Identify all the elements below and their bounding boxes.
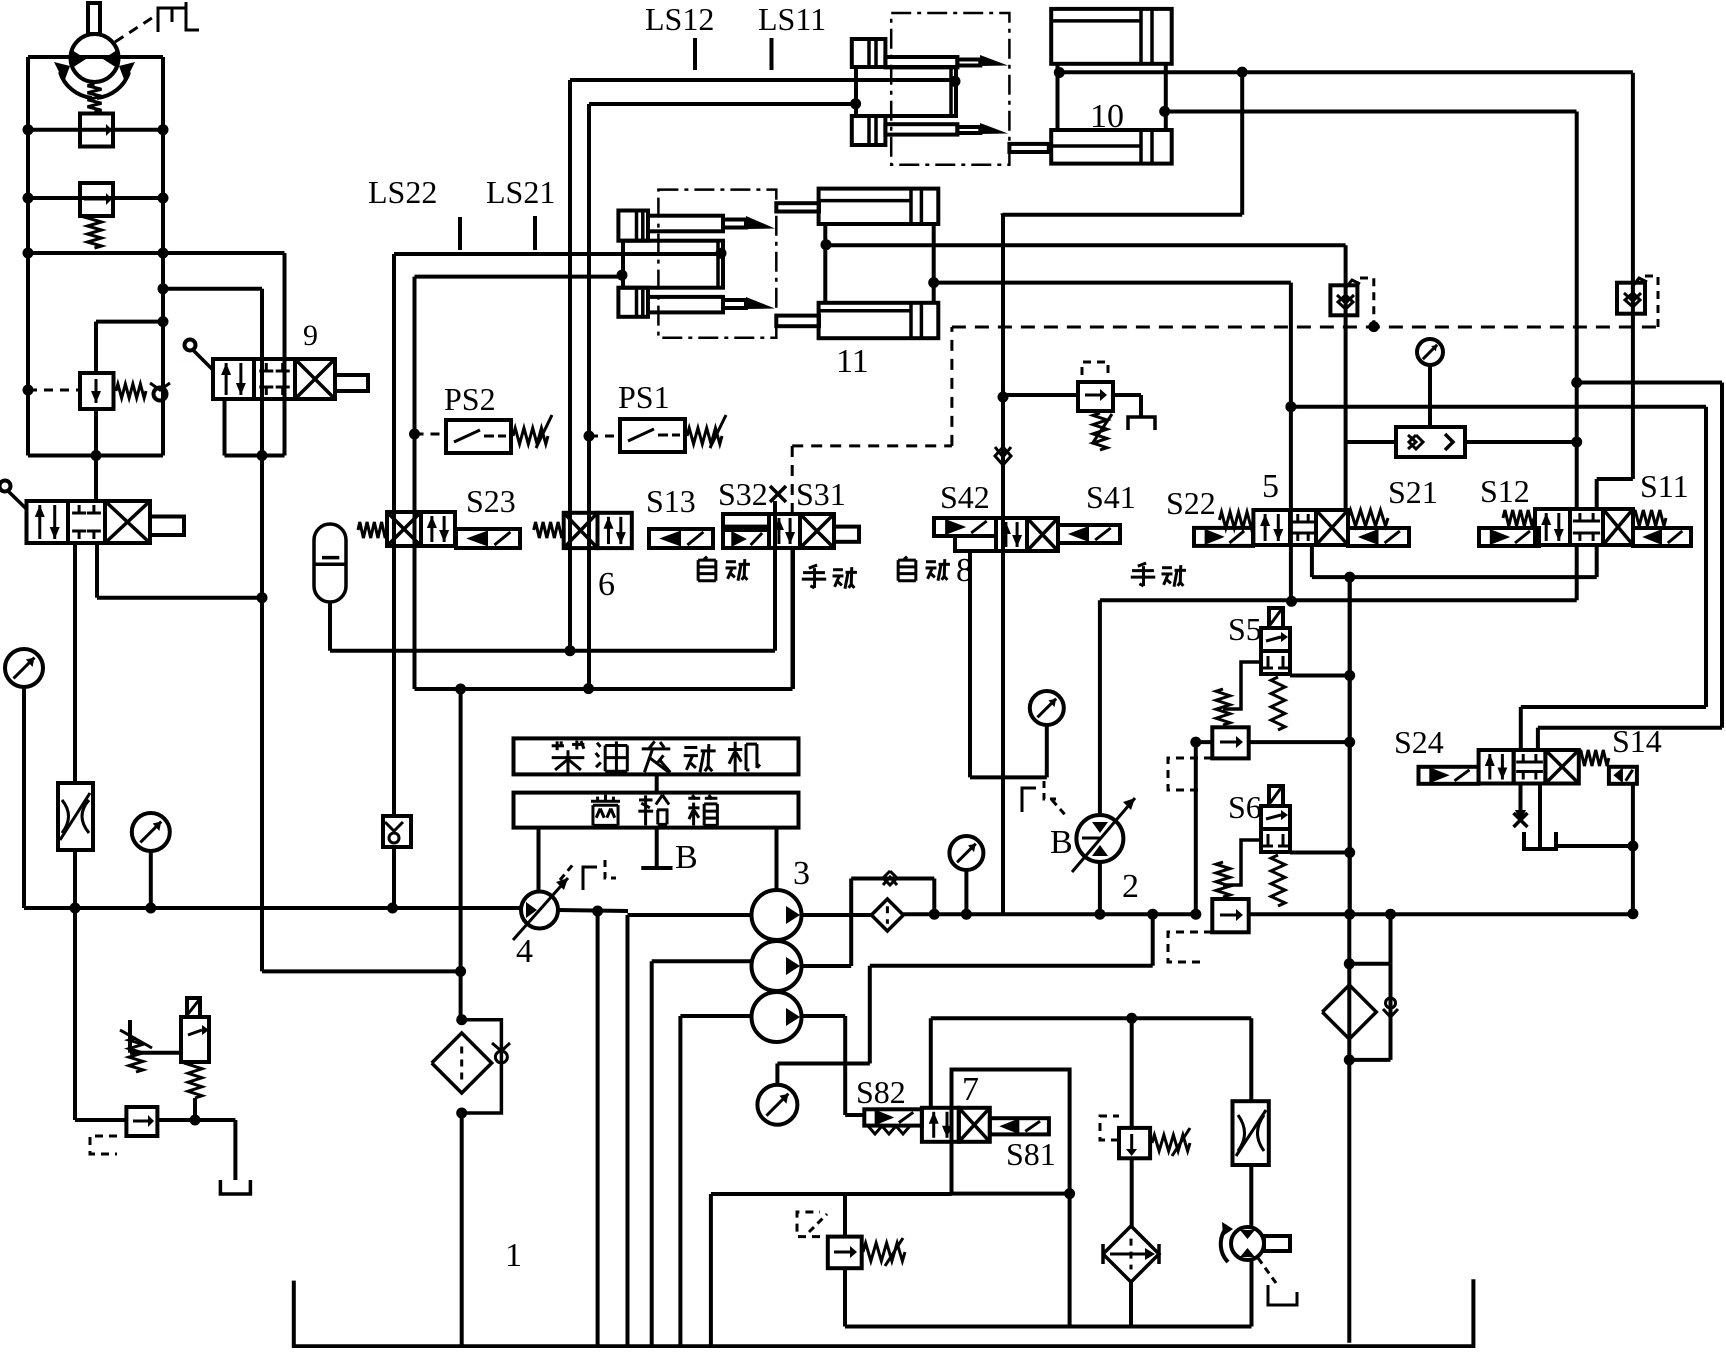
main filter diamond <box>871 899 903 931</box>
check valve box B <box>80 183 113 216</box>
svg-text:S41: S41 <box>1086 479 1136 515</box>
cylinder 11 top spear rod <box>648 216 723 232</box>
branch to S82 gauge line <box>1151 914 1155 966</box>
wire y=908 tank return <box>24 906 522 910</box>
S6 left port <box>1223 840 1261 885</box>
lever valve left body <box>27 501 69 543</box>
S6 relief dashed bracket <box>1168 932 1212 962</box>
svg-text:2: 2 <box>1122 868 1139 905</box>
main line y=914 <box>903 912 1196 916</box>
cylinder 10 body bottom cap <box>1051 130 1172 164</box>
wire y=130 <box>28 128 163 132</box>
pilot valve left wire <box>130 1051 181 1055</box>
wire x=1242 down and left to x=1003 <box>1240 72 1244 215</box>
wire LS11 vertical x=589 <box>587 104 591 689</box>
svg-text:3: 3 <box>793 855 810 892</box>
wire y=455 left section <box>28 454 163 458</box>
throttle valve bottom right <box>1249 1018 1253 1101</box>
filter bypass right-bottom <box>1349 962 1390 966</box>
wire y=651 accumulator line <box>330 649 775 653</box>
cylinder 11 rod top link <box>776 203 819 211</box>
svg-text:B: B <box>1050 824 1073 861</box>
wire LS12 vertical x=570 <box>568 80 572 651</box>
pump 3 circle B <box>752 941 802 991</box>
cylinder 11 port y=246 to valve5 <box>821 239 832 250</box>
svg-text:S31: S31 <box>796 476 846 512</box>
wire S11 bottom to y=577 <box>1595 545 1599 577</box>
check ball <box>154 388 167 401</box>
cylinder 10 port line y=111 <box>1159 106 1170 117</box>
cylinder 11 body side walls <box>823 224 827 303</box>
cylinder 10 port line y=72 <box>1054 67 1065 78</box>
wire y=382.5 to right rail <box>1577 381 1722 385</box>
wire x=75 throttle down to relief row <box>73 850 77 1120</box>
gauge below valve 8 <box>968 551 972 777</box>
wire S31 bottom x=793 <box>791 548 795 689</box>
valve top pipes <box>1519 707 1523 750</box>
S6 valve spring below <box>1271 855 1285 906</box>
relief valve top (pilot) near S42 <box>1003 393 1078 397</box>
dashed bracket relief <box>90 1136 117 1154</box>
cylinder 11 dash-dot frame <box>658 190 776 338</box>
gearbox stem left to pump4 <box>537 827 541 892</box>
cooler diamond <box>1103 1226 1159 1282</box>
gearbox stem mid to B ground <box>655 827 659 868</box>
label auto1 <box>704 557 707 560</box>
svg-text:PS2: PS2 <box>444 381 496 417</box>
spring diagonal above relief <box>129 1038 143 1072</box>
return filter left <box>456 1014 467 1025</box>
wire LS11 line y=104 <box>589 102 856 106</box>
wire S12 T bottom to y=600 <box>1575 545 1579 600</box>
throttle valve left <box>58 783 93 850</box>
svg-text:6: 6 <box>598 566 615 603</box>
valve 9 lever <box>185 340 196 351</box>
S14 solenoid drain <box>1631 784 1635 914</box>
dashed bracket above relief <box>1082 362 1108 375</box>
svg-text:S22: S22 <box>1166 485 1216 521</box>
relief bottom-center stem <box>843 1194 847 1237</box>
relief assembly bottom-left: pilot valve <box>181 1017 209 1062</box>
svg-text:1: 1 <box>505 1237 522 1274</box>
svg-text:7: 7 <box>962 1071 979 1108</box>
cylinder 10 spear middle block <box>856 67 956 116</box>
wire LS21 line y=277 <box>415 275 623 279</box>
valve7 drain loop <box>1068 1194 1072 1327</box>
svg-text:LS22: LS22 <box>368 174 437 210</box>
wire y=600 to x=1100 <box>1100 598 1577 602</box>
hydraulic motor bottom right <box>1249 1165 1253 1228</box>
accumulator <box>314 524 346 602</box>
gauge left-2 <box>132 813 170 851</box>
main line to S14 rail <box>1249 912 1633 916</box>
svg-text:9: 9 <box>303 319 318 352</box>
reducing valve right area <box>1130 1018 1134 1128</box>
tank symbol bottom-left <box>220 1180 250 1194</box>
solenoid valve S82/S81 (7) <box>864 1109 922 1125</box>
check valve box on x=394 <box>383 816 411 847</box>
wire relief to valve <box>94 409 98 456</box>
dashed bracket right of check <box>1360 278 1374 327</box>
S6 relief valve in main line <box>1212 899 1248 932</box>
wire x=414 vertical <box>413 277 417 689</box>
relief valve bottom-left box <box>126 1107 157 1136</box>
svg-text:4: 4 <box>516 933 533 970</box>
wire x=262 down <box>260 289 264 972</box>
cylinder 11 spear unit bottom cap <box>618 288 648 317</box>
valve bottom blocked port with x <box>1519 784 1523 813</box>
wire x=1349 to tank <box>1347 914 1351 1342</box>
cylinder 10 spear unit bottom cap <box>852 116 886 145</box>
S5 valve spring below <box>1271 677 1285 730</box>
pump 3 circle C <box>752 992 802 1042</box>
cylinder 10 body top cap <box>1051 9 1172 64</box>
S6 relief spring <box>1216 862 1230 897</box>
pilot check valve left <box>1330 285 1357 315</box>
gearbox box <box>514 793 799 828</box>
wire y=322 <box>96 320 163 324</box>
svg-text:LS21: LS21 <box>486 174 555 210</box>
pilot check valve right <box>1617 283 1645 314</box>
dashed to PS1 <box>589 435 620 438</box>
lever valve pushrod <box>150 517 184 536</box>
cylinder 11 port y=283 to x=1291 <box>928 277 939 288</box>
filter right diamond <box>1322 985 1376 1039</box>
motor/pump top-left with shaft <box>71 34 119 82</box>
dashed to PS2 <box>415 433 447 436</box>
pump B outlet <box>802 964 852 968</box>
pilot dashed to displacement control <box>115 14 158 42</box>
wire y=455 right segment <box>225 454 285 458</box>
S5 right port <box>1290 674 1350 678</box>
pump 4 variable <box>521 892 558 929</box>
cylinder 10 spear unit top cap <box>852 39 886 67</box>
pump C outlet to S82 feed <box>802 1014 846 1018</box>
svg-text:S42: S42 <box>940 479 990 515</box>
pump A outlet to filter <box>802 913 872 917</box>
pump 2 variable B <box>1076 815 1123 862</box>
S5 relief left port to main line <box>1196 740 1213 744</box>
wire x=1350 vertical <box>1348 577 1352 914</box>
svg-text:S32: S32 <box>718 476 768 512</box>
wire y=198 <box>28 196 163 200</box>
wire x=1632.9 jog into valve <box>1631 73 1635 479</box>
wire x=394 vertical <box>392 254 396 816</box>
return filter bypass check <box>462 1020 502 1113</box>
gauge above main line <box>949 836 983 870</box>
wire x=75 valve to throttle <box>73 543 77 783</box>
pump 2 dashed control <box>1022 788 1036 812</box>
check valve box A <box>80 114 113 147</box>
svg-text:11: 11 <box>836 343 869 380</box>
svg-text:LS11: LS11 <box>758 1 826 37</box>
svg-text:PS1: PS1 <box>618 379 670 415</box>
label auto2 <box>904 557 907 560</box>
box around valve 7 <box>952 1070 1070 1194</box>
cylinder 11 spear unit top cap <box>618 211 648 241</box>
gauge top-right <box>1417 339 1443 365</box>
wire x=1003 main vertical <box>1001 213 1005 914</box>
svg-text:S13: S13 <box>646 483 696 519</box>
wire S32 x down <box>773 501 777 651</box>
shuttle right wire <box>1465 440 1577 444</box>
cylinder 11 spear middle block <box>623 241 723 288</box>
gearbox stem right to pump3 <box>775 827 779 890</box>
spring below box B <box>88 216 102 248</box>
pump 3 circle A <box>752 890 802 940</box>
LS21 tick <box>533 216 537 250</box>
LS22 tick <box>458 217 462 250</box>
cylinder 11 body top cap <box>819 189 939 224</box>
dashed bracket right check <box>1645 276 1658 327</box>
wire top-left rails <box>28 55 163 59</box>
S5 relief right port <box>1249 740 1350 744</box>
cylinder 10 bottom spear rod <box>885 124 957 134</box>
shuttle left wire <box>1346 440 1396 444</box>
shuttle valve box <box>1396 427 1465 457</box>
pump 2 wires <box>1098 862 1102 914</box>
wire y=689 horizontal B <box>415 687 793 691</box>
loop bottom line <box>845 1325 1252 1329</box>
pilot valve spring below <box>188 1062 202 1098</box>
label manual1 <box>809 565 817 568</box>
LS11 tick <box>770 38 774 70</box>
wire x=1291 S21 bottom <box>1289 545 1293 601</box>
svg-text:S24: S24 <box>1394 724 1444 760</box>
diesel engine box <box>514 738 799 774</box>
wire x=1345.6 from cyl11 into valve 5 <box>1344 245 1348 510</box>
svg-text:S81: S81 <box>1006 1136 1056 1172</box>
svg-text:10: 10 <box>1090 98 1124 135</box>
wire y=289 to x=262 <box>163 287 262 291</box>
valve 9 port down-left <box>223 399 227 456</box>
spring above box A <box>88 84 102 112</box>
svg-text:LS12: LS12 <box>645 1 714 37</box>
wire LS12 line y=80 <box>570 78 955 82</box>
pump 4 control bracket <box>583 867 597 890</box>
S5 left port <box>1223 662 1261 709</box>
relief valve bottom-center <box>828 1237 862 1269</box>
S5 relief valve <box>1212 727 1248 758</box>
cylinder 11 body bottom cap <box>819 303 939 338</box>
feed into valve 7 <box>845 1113 864 1117</box>
svg-text:S21: S21 <box>1388 474 1438 510</box>
wire x=1576.7 into valve <box>1575 112 1579 510</box>
motor dashed control <box>1258 1258 1276 1283</box>
LS12 tick <box>693 38 697 70</box>
wire y=253 to x=284 <box>28 251 285 255</box>
cylinder 11 rod bottom link <box>776 316 819 327</box>
upper loop line y=1018 <box>931 1016 1252 1020</box>
cylinder 10 body side walls <box>1056 64 1060 130</box>
svg-text:S12: S12 <box>1480 473 1530 509</box>
svg-text:S23: S23 <box>466 483 516 519</box>
wire relief to tank symbol <box>75 1118 126 1122</box>
S6 right port <box>1290 851 1350 855</box>
svg-text:S82: S82 <box>856 1074 906 1110</box>
pump 4 outlet wires <box>558 910 628 911</box>
cylinder 10 dash-dot frame <box>891 13 1009 165</box>
wire x=97 valve down <box>95 543 99 598</box>
pump C inlet <box>680 1014 751 1018</box>
dashed bracket relief bottom-center <box>797 1212 820 1237</box>
tank outline <box>294 1279 1474 1346</box>
wire y=598 <box>97 596 262 600</box>
valve bottom tank port <box>1538 784 1542 849</box>
dashed pilot Z-path from S31 <box>791 446 794 514</box>
wire y=406.7 <box>1291 405 1706 409</box>
wire S21 bottom ports <box>1310 545 1314 577</box>
wire V2 down <box>1389 914 1393 964</box>
svg-text:S5: S5 <box>1228 611 1262 647</box>
relief valve left (box with spring and check) <box>80 373 114 409</box>
gauge left <box>5 649 43 687</box>
pump1 inlet wire <box>628 913 752 917</box>
engine-gearbox link <box>655 775 659 793</box>
svg-text:S11: S11 <box>1640 468 1689 504</box>
wire x=460 down to filter <box>459 689 463 1020</box>
valve 9 body <box>213 359 254 399</box>
cylinder 10 top spear rod <box>885 57 957 67</box>
gauge S8 area <box>777 1062 869 1066</box>
pump B inlet <box>652 959 752 963</box>
filter bypass check <box>849 879 853 967</box>
label manual2 <box>1138 563 1146 566</box>
S5 relief spring <box>1216 689 1230 725</box>
dashed pilot into relief <box>28 389 80 392</box>
svg-text:5: 5 <box>1262 468 1279 505</box>
reducing valve to diamond <box>1130 1158 1134 1226</box>
valve7 box bottom drain to tank <box>711 1192 952 1196</box>
wire y=971 link <box>262 969 461 973</box>
motor to loop bottom <box>1250 1260 1254 1327</box>
dashed long pilot line y=327 <box>952 326 1657 329</box>
wire LS22 line y=254 <box>394 252 721 256</box>
check valve symbol on x=1003 <box>995 447 1011 457</box>
cylinder 10 rod link <box>1009 144 1048 152</box>
lever valve lever <box>0 481 11 492</box>
valve 9 right tab <box>335 375 368 391</box>
svg-text:B: B <box>675 839 698 876</box>
svg-text:S6: S6 <box>1228 789 1262 825</box>
cylinder 11 bottom spear rod <box>648 297 723 313</box>
S5 relief dashed bracket <box>1168 758 1212 790</box>
wire valve5 right top from y=406.7 <box>1289 407 1293 545</box>
